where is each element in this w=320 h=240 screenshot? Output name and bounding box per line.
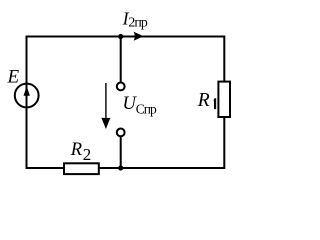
resistor R1 (218, 82, 230, 117)
terminal circle lower (117, 129, 125, 137)
resistor R2 (64, 163, 99, 174)
svg-text:R: R (70, 140, 82, 160)
wire middle branch lower segment (120, 137, 122, 168)
node junction dot bottom (118, 165, 123, 170)
source E circle (15, 84, 39, 108)
svg-text:2пр: 2пр (128, 15, 147, 30)
svg-text:R: R (197, 90, 210, 111)
node junction dot top (118, 34, 123, 39)
wire outer loop (top, left, right, bottom) (27, 37, 225, 169)
terminal circle upper (117, 83, 125, 91)
source E arrowhead (upward) (24, 86, 30, 96)
voltage arrow (downward) (105, 83, 107, 119)
current arrow on top wire (134, 32, 144, 41)
wire middle branch upper segment (120, 37, 122, 82)
svg-text:E: E (7, 67, 20, 88)
svg-text:Спр: Спр (136, 102, 157, 117)
svg-text:2: 2 (83, 145, 92, 164)
